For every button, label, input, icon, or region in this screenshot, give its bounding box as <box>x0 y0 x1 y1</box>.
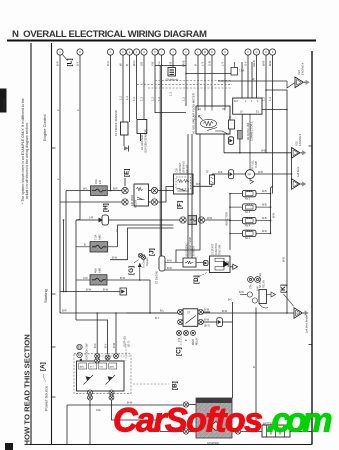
svg-text:1.2: 1.2 <box>151 97 155 101</box>
node L <box>62 54 73 66</box>
svg-text:[L]: [L] <box>67 58 74 66</box>
svg-text:No.1: No.1 <box>245 237 251 240</box>
note text <box>21 98 29 204</box>
terminal circle-x relay in lo <box>122 199 128 205</box>
resistor R3 <box>207 169 215 186</box>
svg-text:B-L: B-L <box>160 309 165 313</box>
svg-text:B-W: B-W <box>103 287 109 291</box>
svg-text:No.2: No.2 <box>245 197 251 200</box>
wire v x272.5 to bus <box>271 186 273 188</box>
svg-text:BR-B: BR-B <box>182 60 186 67</box>
check connector T0 <box>229 117 235 130</box>
terminal circle-x relay in hi <box>122 187 128 193</box>
sw term b2b <box>109 395 114 400</box>
starter relay RL4 C <box>183 309 198 327</box>
connector T2 <box>217 318 223 327</box>
wire v x205 <box>204 55 206 106</box>
svg-text:1.2: 1.2 <box>140 97 144 101</box>
svg-text:RELAY: RELAY <box>196 337 199 345</box>
svg-text:OPENING: OPENING <box>182 161 186 173</box>
svg-text:GR-B: GR-B <box>252 60 256 67</box>
condenser C1 <box>166 68 179 82</box>
svg-text:ENGINE fr: ENGINE fr <box>298 134 302 146</box>
svg-text:G: G <box>143 52 145 54</box>
svg-text:Starting: Starting <box>43 289 48 303</box>
svg-text:3-W: 3-W <box>83 276 88 280</box>
connector row circles <box>57 49 276 55</box>
svg-text:Q: Q <box>256 52 258 54</box>
wire v x80 <box>79 55 81 219</box>
svg-text:40A: 40A <box>94 268 98 273</box>
svg-text:B: B <box>252 366 256 368</box>
node D <box>193 273 207 285</box>
svg-text:[F]: [F] <box>177 201 184 209</box>
svg-text:W-B: W-B <box>272 213 276 218</box>
svg-text:B-W: B-W <box>112 256 118 260</box>
shield dashed lines <box>137 81 232 89</box>
battery BAT <box>262 422 312 438</box>
ground G1 <box>287 63 310 88</box>
svg-text:ENGINE fr: ENGINE fr <box>300 63 304 75</box>
wire v x256.5 <box>256 55 258 98</box>
connector T3 <box>229 170 234 179</box>
svg-text:B-W: B-W <box>86 287 92 291</box>
fuel pump M1 <box>246 114 259 183</box>
svg-text:ST: ST <box>187 312 191 315</box>
svg-text:L-Y: L-Y <box>221 62 225 66</box>
svg-text:Overall: Overall <box>2 99 6 110</box>
svg-text:.com: .com <box>267 402 333 440</box>
relay C term lb <box>178 319 183 324</box>
svg-text:GR: GR <box>140 62 144 66</box>
wire relay C right bottom <box>203 321 216 323</box>
section tab <box>0 89 7 113</box>
oxygen sensor H1 <box>137 120 148 154</box>
injector No.4 <box>229 217 271 227</box>
wire h y320 <box>76 320 108 354</box>
wire v x60 <box>59 55 61 313</box>
node B <box>133 381 179 390</box>
wire bus y225 <box>128 224 174 226</box>
svg-text:RELAY: RELAY <box>263 280 266 288</box>
svg-text:(I5-7): (I5-7) <box>127 341 131 347</box>
junction dot g4 <box>286 312 288 314</box>
watermark <box>113 402 333 440</box>
engine connector E <box>156 256 166 284</box>
svg-text:[K]: [K] <box>280 284 287 293</box>
svg-text:AM2: AM2 <box>98 234 102 240</box>
resistor R1 7.5A <box>231 62 244 75</box>
svg-text:J: J <box>172 52 173 54</box>
svg-text:EFI: EFI <box>98 180 102 184</box>
svg-text:[J]: [J] <box>149 248 156 256</box>
wire v x186 <box>185 55 187 106</box>
wire relay low left <box>60 201 122 203</box>
svg-text:B-R: B-R <box>56 61 60 66</box>
wire fuse left <box>66 190 91 192</box>
svg-text:V1 VOLUME AIR FLOW METER: V1 VOLUME AIR FLOW METER <box>192 93 196 134</box>
svg-text:1.2: 1.2 <box>119 96 123 100</box>
relay C pin 3 <box>191 331 196 336</box>
section tick 3 <box>52 346 56 348</box>
wire v x116 <box>115 313 117 353</box>
title underline <box>7 40 316 42</box>
svg-text:R-B: R-B <box>218 171 223 174</box>
svg-text:TIME SW: TIME SW <box>219 244 222 255</box>
svg-text:B-W: B-W <box>239 291 245 294</box>
ground G3 <box>292 166 307 189</box>
svg-text:(B-7): (B-7) <box>204 324 210 328</box>
svg-text:B-W: B-W <box>204 308 210 312</box>
injector bus right <box>270 188 272 233</box>
wire relay C right top <box>203 311 210 313</box>
svg-text:1.2: 1.2 <box>268 97 272 101</box>
extra wire labels <box>56 77 286 320</box>
svg-text:I E4: I E4 <box>297 70 301 75</box>
svg-text:B-O: B-O <box>106 61 110 66</box>
svg-text:actual circuit shown in the wi: actual circuit shown in the wiring diagr… <box>25 122 29 199</box>
wire v 291.5 <box>291 153 293 184</box>
svg-text:W-R: W-R <box>207 216 212 220</box>
connector bus end <box>120 288 127 295</box>
wire v x272.5 <box>272 55 274 194</box>
wire v x123 <box>122 55 124 122</box>
label data link <box>246 121 254 141</box>
svg-text:1.2: 1.2 <box>132 97 136 101</box>
svg-text:1.2: 1.2 <box>182 97 186 101</box>
wire S7 out to arrow <box>230 266 233 268</box>
EFI main relay RL1 <box>130 184 149 208</box>
svg-text:No.3: No.3 <box>245 211 251 214</box>
wire to starter lower <box>112 405 184 432</box>
wire to ground 1 <box>218 80 287 82</box>
svg-text:[D]: [D] <box>193 275 200 284</box>
wire relay to copn <box>158 190 174 192</box>
wire R3 to pump <box>212 173 246 175</box>
starter pin wires <box>189 404 196 406</box>
wire igniter right pin <box>262 109 287 111</box>
sw term b2a <box>109 390 114 395</box>
svg-text:16A: 16A <box>96 408 101 412</box>
ground arrow S7 <box>233 264 238 269</box>
svg-text:E2 ENGINE: E2 ENGINE <box>156 270 159 284</box>
svg-text:W-B: W-B <box>261 149 266 153</box>
svg-text:1.2: 1.2 <box>125 96 129 100</box>
wire v x198 <box>197 55 199 106</box>
sw term b1a <box>88 390 93 395</box>
ground arrow injectors <box>229 245 231 250</box>
terminal circle-x relay out hi <box>151 187 157 193</box>
wire mid labels <box>119 92 273 120</box>
wire v x232.5 lower <box>232 322 234 398</box>
junction dot <box>286 109 288 111</box>
wire R2 to gnd2 <box>239 139 241 153</box>
wire v x225 <box>224 55 226 106</box>
connector into S7 <box>204 261 209 266</box>
svg-text:Left front fender: Left front fender <box>305 315 309 333</box>
igniter U1 <box>233 98 262 114</box>
svg-text:AM1: AM1 <box>98 267 102 273</box>
svg-text:B-Y: B-Y <box>155 316 160 320</box>
start injector time switch S7 <box>210 243 231 273</box>
svg-text:B-Y: B-Y <box>76 61 80 66</box>
svg-text:STA: STA <box>250 284 253 289</box>
frame tick a <box>309 145 313 147</box>
wire v x232.5 <box>232 302 234 322</box>
wire E lower line <box>165 269 210 271</box>
svg-text:B-C: B-C <box>228 299 232 302</box>
svg-text:ST2: ST2 <box>179 337 181 342</box>
svg-text:B-W: B-W <box>120 276 126 280</box>
svg-text:B: B <box>84 243 86 247</box>
svg-text:B-W: B-W <box>222 309 228 313</box>
svg-text:CarSoftos: CarSoftos <box>113 402 263 440</box>
svg-text:HOW TO READ THIS SECTION: HOW TO READ THIS SECTION <box>23 334 32 446</box>
sw term t1b <box>95 358 100 363</box>
svg-text:G-Y: G-Y <box>244 61 248 66</box>
wire to ground 2 <box>224 152 292 154</box>
noise filter resistor R2 <box>238 131 243 140</box>
svg-text:B-R: B-R <box>113 187 118 191</box>
inline fuse terminal a <box>180 217 186 223</box>
svg-text:K2 KNOCK SENSOR: K2 KNOCK SENSOR <box>114 110 118 136</box>
svg-text:Engine Control: Engine Control <box>42 114 47 141</box>
svg-text:STARTER: STARTER <box>207 441 219 445</box>
svg-text:B-W: B-W <box>167 267 173 270</box>
svg-text:B-W: B-W <box>167 259 173 262</box>
svg-text:W-R: W-R <box>268 61 272 66</box>
sw term t2 <box>105 355 110 360</box>
relay C term lt <box>178 309 183 314</box>
wire x80 jog <box>76 219 80 222</box>
wire v x242 <box>241 62 243 98</box>
fusible link FL1 <box>76 215 180 225</box>
svg-text:1.2: 1.2 <box>169 92 173 96</box>
wire v x173 <box>172 55 174 67</box>
fuse F3 AM2 <box>76 234 118 252</box>
wire speed sensor down <box>255 308 257 432</box>
svg-text:M: M <box>204 52 206 54</box>
sw term t1a <box>95 354 100 359</box>
fuse F1 EFI 15A <box>91 179 108 195</box>
svg-text:C/9: C/9 <box>175 168 179 173</box>
wire v x110.5 <box>110 55 112 190</box>
svg-text:VS: VS <box>222 108 226 111</box>
svg-text:B-W: B-W <box>112 342 116 348</box>
svg-text:CIRCUIT: CIRCUIT <box>178 162 182 173</box>
wire center v3 <box>176 134 200 263</box>
svg-text:2-R: 2-R <box>89 216 93 220</box>
svg-text:[E]: [E] <box>124 169 131 177</box>
inline fuse F2 <box>188 216 197 225</box>
svg-text:W-B: W-B <box>282 257 286 262</box>
injector bus left <box>229 194 231 245</box>
starter switch assembly <box>239 273 276 308</box>
frame right line <box>311 51 313 445</box>
svg-text:[C]: [C] <box>176 347 183 356</box>
wire pump right <box>255 173 292 175</box>
wire v x136.5 <box>136 55 138 119</box>
ignition key symbols <box>77 343 89 361</box>
wire fuse F2 right <box>205 219 230 221</box>
node G charging <box>128 253 149 280</box>
wire center v2 <box>187 134 189 258</box>
svg-text:1G: 1G <box>296 313 299 315</box>
svg-text:B: B <box>194 64 198 66</box>
starter M2 <box>196 398 232 445</box>
svg-text:W-L: W-L <box>83 187 88 191</box>
svg-text:W-B: W-B <box>262 217 267 220</box>
wire igniter bottom <box>241 114 243 130</box>
sw term b1b <box>88 395 93 400</box>
wire shield pair <box>159 66 161 257</box>
wire F3 bend up to copn <box>118 225 129 247</box>
relay C term rb <box>198 319 203 324</box>
relay C term rt <box>198 309 203 314</box>
title <box>12 29 207 40</box>
svg-text:OXYGEN SENSOR: OXYGEN SENSOR <box>144 129 148 153</box>
knock sensor K2 <box>114 110 128 136</box>
connector T1 <box>229 137 234 145</box>
svg-text:7.5A: 7.5A <box>94 234 98 240</box>
wire center v1 <box>191 134 193 258</box>
wire labels ign feeds <box>93 336 131 348</box>
speed sensor pins <box>248 277 261 291</box>
wire v x155 <box>155 55 186 113</box>
svg-text:IGNITION SW: IGNITION SW <box>85 343 89 360</box>
svg-text:B-Y: B-Y <box>103 343 107 348</box>
ground arrow knock <box>124 135 129 152</box>
injector No.3 <box>229 204 271 214</box>
svg-text:B-R: B-R <box>62 309 67 313</box>
svg-text:Y-B: Y-B <box>151 62 155 66</box>
svg-text:[G]: [G] <box>128 266 135 275</box>
injector No.1 <box>229 230 271 240</box>
svg-text:Left front: Left front <box>296 166 300 177</box>
svg-text:W-G: W-G <box>132 61 136 66</box>
wire T2 to starter <box>222 321 232 323</box>
wire fuse to relay <box>107 190 121 192</box>
wire relay lo bend <box>158 187 174 203</box>
svg-text:(Shielded): (Shielded) <box>166 78 179 82</box>
ground G2 <box>292 134 307 158</box>
svg-text:H1 HEATED: H1 HEATED <box>140 135 144 150</box>
wire jog x285.5 <box>266 90 287 313</box>
wire labels under circles <box>56 60 273 67</box>
wire v x97.2 <box>96 313 98 353</box>
wire h y313 <box>60 312 178 314</box>
starter pin a <box>183 402 188 407</box>
wire v x212 <box>211 55 213 106</box>
terminal circle-x relay out lo <box>151 199 157 205</box>
wire vafm down <box>223 134 225 153</box>
wire copn to resistor <box>193 185 212 187</box>
svg-text:W-B: W-B <box>258 171 263 174</box>
frame tick b <box>309 344 313 346</box>
wire v x248 <box>247 55 249 98</box>
junction dot <box>239 152 241 154</box>
svg-text:B-R: B-R <box>93 343 97 348</box>
svg-text:B: B <box>125 64 129 66</box>
svg-text:W-B: W-B <box>262 190 267 193</box>
svg-text:[H]: [H] <box>103 203 110 212</box>
wire relay stubs <box>149 190 152 192</box>
section tick 2 <box>52 293 56 295</box>
wire v x76 <box>75 220 77 320</box>
wire v x266 <box>265 55 267 153</box>
frame separator line <box>51 43 53 445</box>
junction dot x110 <box>110 190 112 192</box>
svg-text:G-B: G-B <box>208 61 212 66</box>
relay C pin 1 <box>177 331 182 336</box>
sw term t3 <box>114 354 119 359</box>
switch bottom wires <box>89 400 91 445</box>
frame bottom line <box>29 444 312 446</box>
node A <box>40 362 47 382</box>
node K <box>280 284 294 306</box>
svg-text:7.5A: 7.5A <box>239 69 245 73</box>
svg-text:Power Source: Power Source <box>44 385 49 411</box>
svg-text:MAIN: MAIN <box>192 339 195 345</box>
volume air flow meter V1 <box>192 93 231 134</box>
switch dashed links <box>100 344 131 361</box>
svg-text:No.4: No.4 <box>245 224 251 227</box>
junction dot <box>63 219 65 221</box>
junction dot <box>185 73 187 75</box>
wire v x161.5 <box>161 55 163 257</box>
svg-text:FP: FP <box>248 172 252 176</box>
wire v x63.5 <box>63 220 65 292</box>
wire E leader <box>124 178 126 186</box>
svg-text:N OVERALL ELECTRICAL WIRING D: N OVERALL ELECTRICAL WIRING DIAGRAM <box>12 29 207 40</box>
bus y291.5 <box>60 291 120 293</box>
svg-text:SENSOR: SENSOR <box>193 246 196 257</box>
svg-text:IGT: IGT <box>234 100 239 103</box>
svg-text:W-R: W-R <box>262 61 266 66</box>
svg-text:PUMP: PUMP <box>255 160 258 168</box>
wire v x66 <box>65 191 67 292</box>
section tick 4 <box>52 396 56 398</box>
relay C pin 2 <box>184 331 189 336</box>
ECT sensor box <box>165 237 204 267</box>
wire v x129.5 <box>129 55 131 122</box>
svg-text:W-B: W-B <box>262 204 267 207</box>
svg-text:B-W: B-W <box>204 318 210 322</box>
inline fuse terminal b <box>198 217 204 223</box>
fuse F4 AM1 <box>76 267 150 285</box>
starter pin b <box>183 429 188 434</box>
svg-text:RELAY: RELAY <box>134 199 138 208</box>
wire v x150 <box>149 280 151 313</box>
frame left line <box>30 43 32 445</box>
wire v x252 <box>251 62 253 98</box>
svg-text:INJECTOR: INJECTOR <box>225 212 229 226</box>
svg-text:I E5: I E5 <box>295 141 299 146</box>
wire bus y73.5 <box>186 73 231 75</box>
ignition switch SW1 <box>74 354 131 394</box>
circuit opening relay RL2 <box>174 161 194 194</box>
svg-text:O: O <box>224 52 226 54</box>
circle letters <box>59 51 274 54</box>
svg-text:15A: 15A <box>94 179 98 184</box>
wire to ground 4 <box>126 312 294 314</box>
page corner mark <box>5 443 13 450</box>
svg-text:L-Y: L-Y <box>201 62 205 66</box>
svg-text:EFI MAIN: EFI MAIN <box>130 195 134 206</box>
starter pin c <box>235 429 240 434</box>
junction dot <box>265 89 267 91</box>
ground G4 <box>294 308 309 333</box>
